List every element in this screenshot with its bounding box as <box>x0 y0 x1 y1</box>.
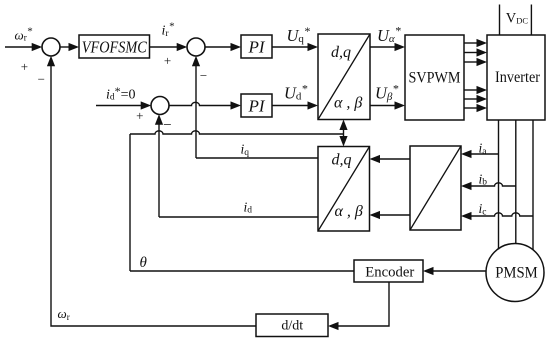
svg-text:d,q: d,q <box>331 44 351 61</box>
block dq2 park <box>318 147 370 232</box>
wire SVPWM to Inverter pulse 2 <box>464 52 478 54</box>
wire S3 to PI2 with hop <box>169 102 232 105</box>
svg-text:+: + <box>21 59 28 74</box>
wire i_q feedback vertical to S2 <box>195 65 197 158</box>
wire PI1 to dq1 with U_q* <box>272 46 309 48</box>
wire theta from encoder <box>130 270 354 272</box>
wire theta horizontal with two hops <box>130 131 344 134</box>
svg-text:ωr: ωr <box>58 306 70 322</box>
block Inverter <box>487 35 545 120</box>
wire theta vertical <box>129 134 131 271</box>
wire clarke to dq2 upper <box>379 158 410 160</box>
block Encoder <box>354 260 423 282</box>
svg-text:VFOFSMC: VFOFSMC <box>82 38 148 57</box>
wire VDC left <box>499 5 501 36</box>
wire dq1 to SVPWM with U_alpha* <box>370 46 396 48</box>
wire PI2 to dq1 with U_d* <box>272 105 309 107</box>
wire VDC right <box>530 5 532 36</box>
wire i_d feedback horizontal <box>159 216 318 218</box>
wire omega_r* input <box>5 46 33 48</box>
block VFOFSMC <box>79 35 150 58</box>
wire SVPWM to Inverter pulse 1 <box>464 42 478 44</box>
svg-text:Ud*: Ud* <box>284 81 307 102</box>
wire theta branch down to dq2 <box>343 134 345 137</box>
wire phase b vertical <box>515 120 517 244</box>
svg-text:d/dt: d/dt <box>281 319 303 334</box>
block dq1 inverse park <box>318 34 370 120</box>
svg-text:Uq*: Uq* <box>287 24 310 45</box>
svg-text:ir*: ir* <box>162 21 175 40</box>
wire SVPWM to Inverter pulse 4 <box>464 89 478 91</box>
svg-text:−: − <box>38 72 45 87</box>
svg-text:Encoder: Encoder <box>365 265 414 281</box>
svg-text:−: − <box>200 68 207 83</box>
wire theta branch up to dq1 <box>343 129 345 134</box>
wire Encoder down to d/dt <box>338 282 390 326</box>
svg-text:d,q: d,q <box>332 152 352 169</box>
wire i_c with two hops <box>471 213 534 216</box>
svg-text:−: − <box>163 117 171 133</box>
wire i_d* input <box>96 105 142 107</box>
wire i_b with hop <box>471 183 516 186</box>
svg-text:ωr*: ωr* <box>15 25 33 42</box>
svg-text:id*=0: id*=0 <box>106 84 136 102</box>
svg-text:VDC: VDC <box>506 11 529 27</box>
block PI1 <box>241 35 272 58</box>
block SVPWM <box>405 35 464 120</box>
wire phase c vertical <box>532 120 534 250</box>
svg-text:iq: iq <box>241 142 250 159</box>
svg-text:ib: ib <box>479 172 488 188</box>
svg-text:ia: ia <box>479 141 488 158</box>
wire i_q feedback horizontal <box>196 157 318 159</box>
svg-text:+: + <box>164 53 171 68</box>
wire SVPWM to Inverter pulse 5 <box>464 98 478 100</box>
svg-text:id: id <box>244 200 253 216</box>
svg-text:Uβ*: Uβ* <box>375 82 398 103</box>
svg-text:PI: PI <box>247 97 265 116</box>
svg-text:Inverter: Inverter <box>495 69 541 86</box>
svg-text:ic: ic <box>479 201 487 218</box>
wire i_d feedback vertical to S3 <box>158 124 160 217</box>
svg-text:Uα*: Uα* <box>377 24 401 46</box>
wire clarke to dq2 lower <box>379 214 410 216</box>
svg-text:α , β: α , β <box>335 203 363 220</box>
wire d/dt output to S1 <box>51 65 256 326</box>
svg-text:PMSM: PMSM <box>495 265 538 282</box>
svg-text:+: + <box>136 108 143 123</box>
svg-text:SVPWM: SVPWM <box>409 69 461 86</box>
wire SVPWM to Inverter pulse 6 <box>464 107 478 109</box>
wire SVPWM to Inverter pulse 3 <box>464 61 478 63</box>
wire PMSM to Encoder <box>433 270 487 272</box>
svg-text:α , β: α , β <box>334 95 362 112</box>
svg-text:PI: PI <box>247 38 265 57</box>
block ddt <box>256 314 328 337</box>
svg-text:θ: θ <box>140 255 148 271</box>
wire VFOFSMC to S2 <box>150 46 178 48</box>
summing junction S1 <box>42 38 60 56</box>
wire i_a <box>471 153 499 155</box>
wire phase a vertical <box>498 120 500 250</box>
summing junction S2 <box>187 38 205 56</box>
block PI2 <box>241 94 272 117</box>
wire S1 to VFOFSMC <box>60 46 70 48</box>
machine PMSM <box>486 244 544 302</box>
wire S2 to PI1 <box>205 46 232 48</box>
block clarke abc-alphabeta <box>410 146 461 230</box>
wire dq1 to SVPWM with U_beta* <box>370 105 396 107</box>
summing junction S3 <box>151 97 169 115</box>
